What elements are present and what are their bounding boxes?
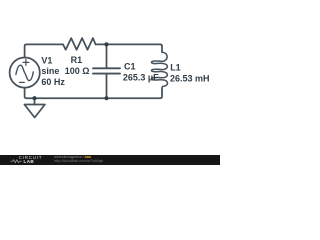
svg-text:LAB: LAB	[24, 159, 35, 164]
svg-text:R1: R1	[71, 55, 83, 65]
footer watermark bar	[0, 155, 220, 165]
wire bottom-left segment	[25, 88, 105, 99]
node junction dot bottom (C1/ground)	[104, 96, 108, 100]
voltage source V1 circle	[10, 58, 40, 88]
capacitor C1 plates	[93, 68, 120, 73]
V1 plus sign	[23, 60, 29, 66]
node junction dot ground	[32, 96, 36, 100]
wire top-left segment	[25, 44, 63, 57]
V1 minus sign	[20, 81, 25, 83]
svg-text:265.3 µF: 265.3 µF	[123, 73, 159, 83]
svg-text:http://circuitlab.com/c/7sh0qb: http://circuitlab.com/c/7sh0qb	[54, 159, 103, 163]
wire top-right segment	[96, 44, 162, 52]
node junction dot top (R1/C1/L1)	[104, 42, 108, 46]
footer logo zigzag	[11, 160, 22, 163]
svg-text:26.53 mH: 26.53 mH	[170, 74, 210, 84]
svg-text:100 Ω: 100 Ω	[65, 66, 90, 76]
resistor R1	[63, 38, 96, 50]
V1 sine symbol	[16, 65, 33, 80]
svg-text:L1: L1	[170, 63, 181, 73]
capacitor C1 top lead	[106, 44, 108, 67]
ground stub	[34, 98, 36, 104]
wire right-bottom segment	[109, 88, 162, 98]
svg-text:60 Hz: 60 Hz	[41, 77, 65, 87]
svg-text:C1: C1	[124, 62, 136, 72]
inductor L1 coil	[151, 52, 167, 89]
svg-text:sine: sine	[41, 66, 59, 76]
svg-text:V1: V1	[41, 55, 52, 65]
ground triangle	[24, 105, 45, 118]
capacitor C1 bottom lead	[106, 75, 108, 98]
